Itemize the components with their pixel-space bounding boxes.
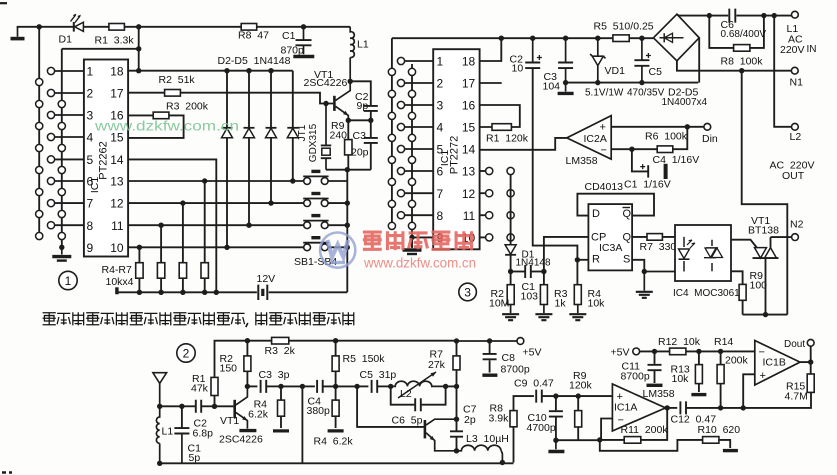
wire: R2 drop: [246, 341, 248, 387]
svg-text:16: 16: [462, 99, 476, 113]
junction R node: [575, 257, 580, 262]
wire: R3 loop: [128, 115, 184, 137]
junction osc row: [345, 167, 350, 172]
wire: fb to R10: [600, 440, 703, 451]
LED D1: [73, 22, 75, 32]
diode D5: [287, 127, 298, 129]
resistor R4 (10k): [136, 263, 143, 279]
svg-text:13: 13: [110, 175, 124, 189]
op-amp IC1A: [612, 384, 665, 431]
bridge diode symbol: [664, 33, 672, 42]
wire: rx pin6 stub: [405, 170, 434, 172]
wire: pin4 stub: [55, 136, 84, 138]
junction C11 top: [652, 349, 657, 354]
pushbutton SB3 left contact: [304, 200, 311, 207]
wire: R1 riser: [215, 341, 248, 407]
wire: tap to VT2 base: [357, 386, 424, 427]
wire: pin18 riser: [480, 38, 502, 61]
svg-text:IC1B: IC1B: [763, 357, 786, 369]
svg-text:LM358: LM358: [566, 155, 598, 167]
pad C3: [58, 144, 65, 151]
junction C2-C3: [368, 118, 373, 123]
svg-text:C3 3p: C3 3p: [259, 369, 290, 381]
crystal JT1: [321, 145, 331, 158]
resistor R4a 6.2k: [278, 400, 285, 416]
ground bar pin9 b: [57, 259, 67, 261]
pad rxA4: [388, 134, 395, 141]
R4 lower lead: [577, 305, 579, 314]
junction R7 top: [202, 178, 207, 183]
ground C8: [482, 374, 497, 377]
svg-text:7: 7: [87, 197, 94, 211]
pad rxB6: [397, 167, 404, 174]
svg-text:10M: 10M: [489, 298, 509, 310]
ground (pin 9): [61, 247, 63, 254]
wire: rx out stub 11: [480, 214, 486, 216]
transistor VT1 collector: [336, 81, 351, 100]
svg-text:8: 8: [437, 209, 444, 223]
wire: R2 to base: [180, 93, 333, 104]
pad rxB5: [397, 145, 404, 152]
resistor R2 10M: [507, 285, 514, 305]
wire: rail drop to pin18: [138, 27, 140, 71]
svg-text:10k: 10k: [672, 373, 690, 385]
ground VT1 emitter: [239, 429, 256, 432]
junction D4 bottom: [268, 200, 273, 205]
Qbar overline: [623, 207, 631, 209]
pad B4: [47, 133, 54, 140]
wire: fb row: [556, 439, 600, 441]
wire: R4a to shield: [281, 385, 302, 387]
pad A8: [36, 232, 43, 239]
junction C5 top: [639, 36, 644, 41]
pad rx chain10: [507, 234, 514, 241]
svg-text:103: 103: [521, 291, 539, 303]
pushbutton SB1 cap: [311, 236, 320, 239]
wire: R10 to gnd: [719, 440, 730, 448]
crystal JT1 lead: [325, 104, 327, 146]
junction C3 gnd rail: [563, 80, 568, 85]
pad C6: [58, 210, 65, 217]
capacitor C5 31p: [372, 380, 378, 393]
wire: C10 drop: [555, 396, 557, 440]
resistor R9 100: [739, 284, 746, 300]
svg-text:2: 2: [183, 347, 190, 361]
junction R4 rail: [137, 290, 142, 295]
wire: R7 column: [204, 181, 206, 292]
capacitor C4 1/16V: [647, 165, 649, 177]
wire: rx rail drop left: [391, 38, 393, 229]
junction C8 rail: [487, 338, 492, 343]
wire: rx ground rail: [566, 82, 699, 84]
wire: S to ground: [632, 260, 644, 272]
svg-text:9p: 9p: [357, 100, 369, 112]
wire: R14 drop: [720, 351, 722, 408]
svg-text:5.1V/1W: 5.1V/1W: [585, 88, 624, 99]
wire: C7 column: [456, 386, 458, 450]
junction D3 top: [246, 68, 251, 73]
pad rxC7: [408, 200, 415, 207]
wire: R8 loop: [709, 16, 764, 48]
wire: rx out stub 12: [480, 192, 486, 194]
capacitor C5 470/35V: [634, 60, 649, 66]
diode D3: [244, 127, 255, 129]
junction R13 top: [696, 349, 701, 354]
wire: diode D5 column: [292, 71, 294, 181]
svg-text:870p: 870p: [281, 45, 305, 57]
wire: shield drop: [301, 386, 303, 463]
pad rxB1: [397, 57, 404, 64]
junction R2 rail: [245, 338, 250, 343]
junction C3 rail: [563, 36, 568, 41]
junction R14 top: [718, 349, 723, 354]
resistor R7 27k: [453, 356, 460, 370]
pad rxB8: [397, 212, 404, 219]
junction D4 top: [268, 68, 273, 73]
pad rxC6: [408, 178, 415, 185]
wire: tx ground rail: [117, 291, 347, 293]
svg-text:C3: C3: [353, 130, 367, 142]
wire: C4 branch: [632, 149, 648, 171]
wire: minus drop: [601, 419, 612, 440]
wire: triac top to N2: [770, 237, 772, 248]
diode D4: [266, 127, 277, 129]
svg-text:R2 51k: R2 51k: [159, 74, 196, 86]
watermark logo bar: [331, 261, 346, 264]
MOC internal LED: [683, 237, 685, 272]
watermark logo circle: [320, 233, 355, 268]
wire: R input: [577, 259, 588, 261]
pad rxC5: [408, 156, 415, 163]
junction R5 rail: [158, 290, 163, 295]
resistor R3 1k: [540, 285, 547, 305]
junction C10 node: [553, 393, 558, 398]
svg-text:R10 620: R10 620: [698, 424, 741, 436]
wire: pin6 stub: [55, 180, 84, 182]
wire: osc ground row: [326, 169, 371, 171]
ground R13: [691, 393, 706, 396]
svg-text:+: +: [600, 122, 606, 134]
svg-text:www.dzkfw.com.cn: www.dzkfw.com.cn: [363, 256, 476, 271]
resistor R13 10k: [695, 365, 702, 384]
junction R6 top: [180, 200, 185, 205]
terminal L2: [792, 123, 799, 130]
svg-text:12: 12: [462, 187, 476, 201]
pad rx chain13: [507, 167, 514, 174]
capacitor C6 0.68/400V: [729, 9, 735, 23]
svg-text:470/35V: 470/35V: [627, 88, 665, 99]
svg-text:C12 0.47: C12 0.47: [671, 414, 717, 426]
ground S: [636, 292, 653, 298]
pad C5: [58, 188, 65, 195]
junction R5 top: [158, 223, 163, 228]
pad B5: [47, 156, 54, 163]
IC1 PT2262 body: [84, 60, 128, 257]
wire: rx pin5 stub: [405, 148, 434, 150]
wire: node to C3: [370, 120, 372, 137]
svg-text:R3 200k: R3 200k: [166, 101, 209, 113]
resistor R3 2k: [272, 337, 289, 344]
junction common 247.3: [345, 245, 350, 250]
ground bar: [11, 37, 25, 41]
junction base node: [212, 404, 217, 409]
wire: C2 to node: [370, 111, 372, 120]
svg-text:7: 7: [437, 187, 444, 201]
wire: R8 to C1/L1: [257, 26, 351, 28]
wire: C3 to gnd row: [370, 143, 372, 170]
svg-text:IC4 MOC3061: IC4 MOC3061: [673, 288, 740, 299]
wire: R2 column: [510, 272, 512, 285]
wire: output row pin11: [128, 224, 304, 226]
svg-text:C8: C8: [502, 352, 516, 364]
junction minus node: [629, 147, 634, 152]
capacitor C2 9p: [364, 106, 378, 111]
wire: C9 to node: [542, 395, 612, 397]
pad A4: [36, 144, 43, 151]
pushbutton SB3 right contact: [321, 200, 328, 207]
pad B6: [47, 177, 54, 184]
svg-text:R6 100k: R6 100k: [645, 131, 688, 143]
wire: pin7 stub: [55, 202, 84, 204]
svg-text:11: 11: [111, 219, 124, 233]
wire: rx chain column: [510, 175, 512, 245]
wire: triac main lower: [765, 258, 767, 315]
svg-text:IC2A: IC2A: [584, 133, 607, 145]
R3 lower lead: [543, 305, 545, 314]
wire: emitter to C2/C3: [348, 119, 371, 121]
wire: triac bottom row: [743, 314, 788, 316]
op-amp IC1B: [755, 341, 800, 386]
svg-text:R4-R7: R4-R7: [102, 264, 133, 276]
S ground stub: [643, 272, 645, 291]
svg-text:IN: IN: [807, 44, 817, 55]
svg-text:Dout: Dout: [784, 339, 805, 350]
capacitor C2 10 lead: [532, 38, 534, 62]
junction R6 rail: [180, 290, 185, 295]
junction Din node: [685, 124, 690, 129]
pad A7: [36, 210, 43, 217]
junction R14 bottom: [718, 405, 723, 410]
pad C7: [58, 232, 65, 239]
wire: C6 loop: [391, 386, 446, 404]
wire: R8 riser: [514, 396, 534, 443]
svg-text:S: S: [623, 254, 630, 266]
junction R4a: [278, 384, 283, 389]
svg-text:9: 9: [87, 241, 94, 255]
ground C11: [647, 384, 663, 387]
terminal +5V a: [517, 338, 524, 345]
junction bias: [333, 384, 338, 389]
section mark 2: [177, 344, 195, 362]
svg-text:2SC4226: 2SC4226: [304, 77, 348, 89]
inductor L1 lead: [349, 57, 351, 81]
wire: SB1 to common: [328, 246, 347, 248]
svg-text:JT1: JT1: [297, 124, 308, 141]
wire: SB3 to common: [328, 202, 347, 204]
wire: base wire: [215, 405, 234, 407]
pad rxB4: [397, 123, 404, 130]
C1 plates: [296, 40, 312, 45]
svg-text:−: −: [618, 415, 624, 427]
svg-text:C5 31p: C5 31p: [360, 369, 397, 381]
capacitor C11 8700p: [648, 365, 662, 370]
resistor R8 100k: [734, 45, 750, 52]
wire: CP riser: [543, 272, 545, 285]
svg-text:4: 4: [437, 121, 444, 135]
resistor R1 47k: [211, 377, 218, 395]
resistor R7 330: [647, 234, 662, 241]
resistor R5 150k: [332, 356, 339, 371]
pushbutton SB2 left contact: [304, 222, 311, 229]
pushbutton SB4 right contact: [321, 178, 328, 185]
svg-text:3: 3: [464, 286, 471, 300]
wire: IC2A plus input: [611, 126, 687, 128]
wire: C3 to R4a: [267, 385, 282, 387]
triac VT1 BT138: [755, 248, 777, 259]
transistor VT1 rx collector: [236, 386, 248, 405]
svg-text:15: 15: [462, 121, 476, 135]
wire: MOC to R9: [731, 271, 743, 284]
wire: SB2 to common: [328, 224, 347, 226]
inductor L2: [391, 381, 446, 386]
resistor R7 (10k): [201, 263, 208, 279]
pushbutton SB2 cap: [311, 214, 320, 217]
svg-text:VD1: VD1: [605, 65, 626, 77]
zener VD1: [592, 56, 603, 65]
pad A2: [36, 100, 43, 107]
wire: C4 to bias: [323, 385, 357, 387]
svg-text:−: −: [601, 145, 607, 157]
pad C2: [58, 122, 65, 129]
pad rxC8: [408, 222, 415, 229]
svg-text:120k: 120k: [569, 380, 593, 392]
resistor R9 240: [345, 140, 352, 155]
svg-text:R8 100k: R8 100k: [721, 56, 764, 68]
svg-text:3: 3: [437, 99, 444, 113]
op-amp IC2A: [567, 116, 611, 160]
junction common 203.1: [345, 200, 350, 205]
svg-text:2SC4226: 2SC4226: [219, 434, 263, 446]
svg-text:L3 10µH: L3 10µH: [466, 433, 509, 445]
junction collector node 2: [245, 384, 250, 389]
battery 12V: [258, 285, 267, 300]
junction rail-A: [37, 24, 42, 29]
ground C10: [548, 450, 564, 453]
svg-text:220V: 220V: [780, 44, 805, 56]
wire: R9 to bottom: [742, 300, 744, 314]
wire: bridge right to gnd rail: [698, 38, 700, 83]
svg-text:C4 1/16V: C4 1/16V: [653, 154, 700, 166]
junction rx pin9 gnd: [409, 235, 414, 240]
svg-text:R4 6.2k: R4 6.2k: [314, 436, 354, 448]
wire: IC2A minus input: [611, 148, 632, 150]
resistor R2 150: [244, 356, 251, 371]
junction VD1 top: [595, 36, 600, 41]
svg-text:380p: 380p: [307, 405, 331, 417]
pad A3: [36, 122, 43, 129]
junction S node: [642, 269, 647, 274]
wire: jumper link: [62, 48, 139, 50]
junction C1 node: [179, 404, 184, 409]
VD1 lower lead: [597, 66, 599, 83]
svg-text:R5 510/0.25: R5 510/0.25: [594, 21, 654, 33]
diode D1 (rx): [505, 245, 516, 255]
wire: tank to R7 node: [446, 385, 457, 387]
svg-text:L1: L1: [357, 39, 369, 51]
junction tank right: [443, 384, 448, 389]
svg-text:200k: 200k: [725, 355, 749, 367]
svg-text:R14: R14: [714, 336, 733, 348]
wire: diode D3 column: [248, 71, 250, 226]
ground bar pin9: [52, 255, 71, 258]
wire: R9b drop: [577, 396, 579, 440]
svg-text:6.8p: 6.8p: [193, 428, 214, 440]
wire: rail to 5V term: [457, 340, 517, 342]
junction collector node: [348, 79, 353, 84]
resistor R8 3.9k: [510, 411, 517, 427]
wire: R6 column: [182, 203, 184, 292]
C3 lower lead: [565, 68, 567, 83]
junction antenna node: [157, 404, 162, 409]
junction C1 top: [301, 24, 306, 29]
wire: Din stub: [687, 126, 704, 128]
wire: C1 5p branch: [160, 406, 182, 428]
pad A1: [36, 78, 43, 85]
junction pin18-drop: [136, 68, 141, 73]
inductor L1 (tx): [350, 27, 354, 58]
pushbutton SB1 right contact: [321, 244, 328, 251]
wire: R11 row: [600, 408, 667, 440]
wire: rx out stub 13: [480, 170, 486, 172]
IC4 MOC3061 body: [675, 225, 731, 281]
resistor R2: [165, 90, 181, 97]
svg-text:100: 100: [750, 280, 768, 292]
resistor R11 200k: [624, 437, 641, 444]
junction emitter node: [346, 118, 351, 123]
pad rxA5: [388, 156, 395, 163]
wire: N1 long link: [742, 71, 788, 315]
wire: pin17 stub: [480, 82, 502, 84]
svg-text:17: 17: [462, 77, 476, 91]
diode D1 rx lead: [510, 241, 512, 245]
svg-text:L2: L2: [400, 388, 412, 400]
wire: R6 feedback: [632, 127, 687, 149]
svg-text:Q: Q: [623, 208, 632, 220]
wire: Q output: [632, 236, 675, 238]
L2 arrow: [398, 372, 436, 398]
wire: button common: [346, 170, 348, 293]
pad B8: [47, 222, 54, 229]
diode D2: [222, 127, 233, 129]
capacitor C5 lead: [641, 38, 643, 60]
wire: R1 loop rx: [480, 105, 520, 127]
pad rxB3: [397, 101, 404, 108]
pad rx chain12: [507, 190, 514, 197]
C5 plus: [646, 53, 651, 58]
zener VD1 lead: [597, 38, 599, 55]
svg-text:18: 18: [110, 65, 124, 79]
corner mark bottom-left: [2, 471, 12, 473]
resistor R1 120k: [492, 124, 511, 131]
wire: R13 drop: [698, 351, 700, 392]
L3 right lead: [501, 451, 502, 463]
svg-text:IC3A: IC3A: [599, 242, 622, 254]
capacitor C6 5p: [415, 398, 421, 411]
svg-text:R: R: [592, 254, 600, 266]
svg-text:1N4007x4: 1N4007x4: [662, 97, 708, 108]
pad rxC3: [408, 112, 415, 119]
wire: C2 bottom / CD4013 feed: [533, 68, 578, 260]
